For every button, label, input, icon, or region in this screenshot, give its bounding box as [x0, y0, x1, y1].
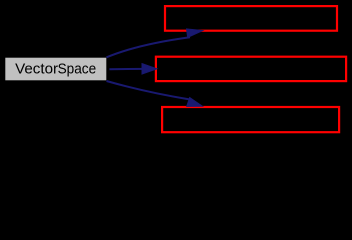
wire arrow to top box [107, 29, 204, 58]
derived node box 2 (middle) [156, 57, 346, 81]
node VectorSpace [5, 58, 106, 81]
derived node box 3 (bottom) [162, 107, 339, 132]
derived node box 1 (top) [165, 6, 337, 31]
svg-text:VectorSpace: VectorSpace [15, 61, 96, 77]
wire arrow to middle box [109, 63, 157, 74]
wire arrow to bottom box [107, 81, 204, 107]
